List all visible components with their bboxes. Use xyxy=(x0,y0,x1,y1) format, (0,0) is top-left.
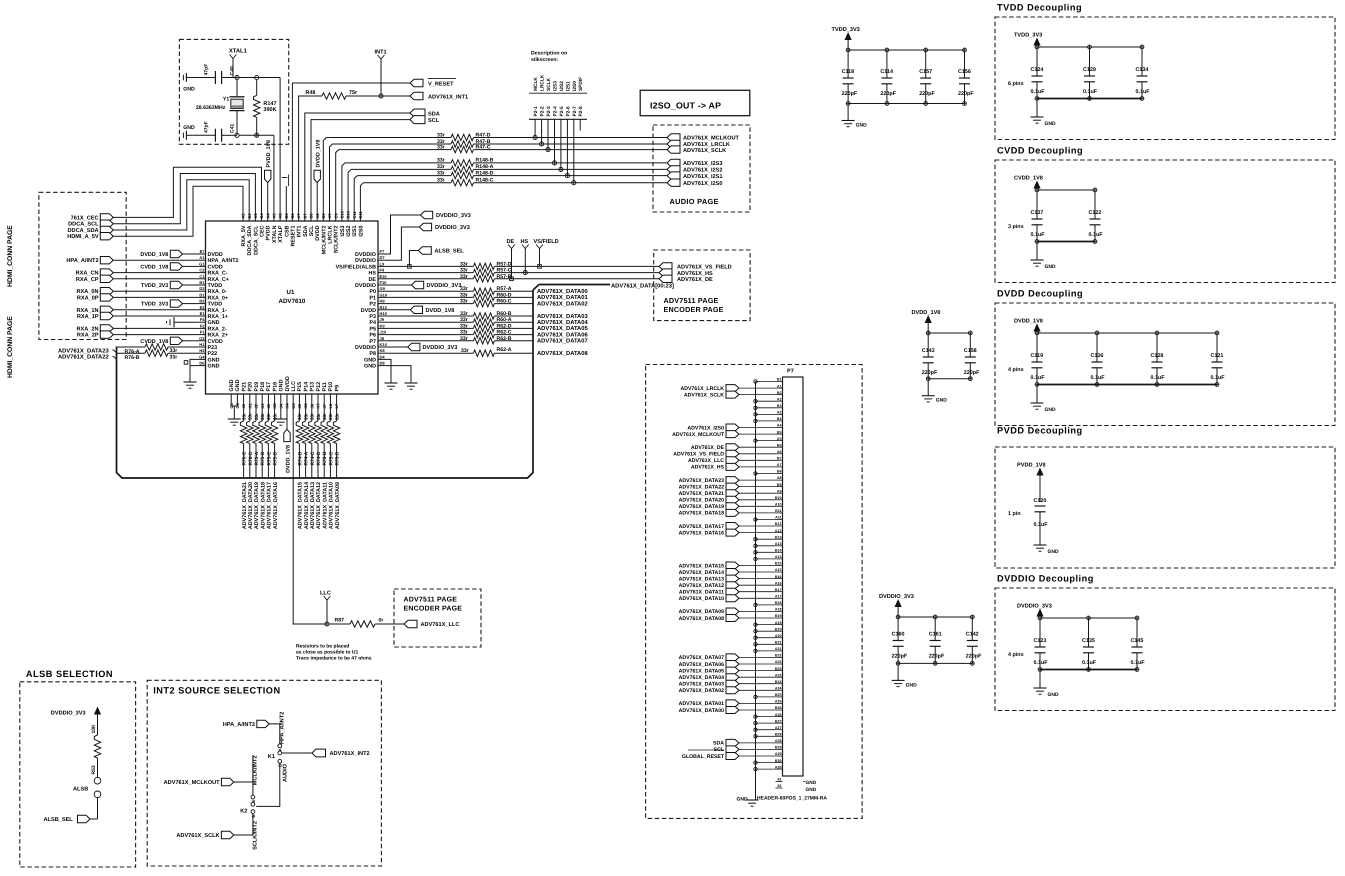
svg-text:ADV761X_SCLK: ADV761X_SCLK xyxy=(683,148,726,154)
capacitor C135 0.1uF xyxy=(1087,616,1091,620)
signal tag ADV761X_DE xyxy=(659,275,672,282)
svg-text:A29: A29 xyxy=(775,752,782,756)
svg-text:XTALN: XTALN xyxy=(272,225,278,243)
svg-text:Y1: Y1 xyxy=(223,96,229,102)
svg-text:A17: A17 xyxy=(775,595,782,599)
svg-text:B29: B29 xyxy=(775,746,782,750)
signal tag ADV761X_DATA03 (P7) xyxy=(726,680,739,687)
svg-text:ADV761X_INT1: ADV761X_INT1 xyxy=(428,94,468,100)
svg-text:DVDDIO: DVDDIO xyxy=(355,345,376,351)
wire SCL column and tag xyxy=(311,120,410,211)
svg-text:GND: GND xyxy=(806,787,817,793)
svg-text:A1: A1 xyxy=(199,255,205,260)
svg-text:ADV761X_DE: ADV761X_DE xyxy=(691,445,725,451)
resistor R62-D / net ADV761X_DATA05 xyxy=(387,327,473,329)
svg-text:DVDDIO: DVDDIO xyxy=(355,252,376,258)
resistor R75-C 33r (column P17) xyxy=(267,401,269,422)
svg-text:ADV761X_DATA15: ADV761X_DATA15 xyxy=(679,563,724,569)
svg-text:ADV761X_DATA20: ADV761X_DATA20 xyxy=(679,498,724,504)
svg-text:ADV761X_DATA14: ADV761X_DATA14 xyxy=(304,482,310,529)
svg-text:ADV761X_DATA07: ADV761X_DATA07 xyxy=(679,655,724,661)
rail DVDD_1V8 xyxy=(928,332,970,334)
tie mark on CSB column xyxy=(285,186,287,211)
svg-text:I2S3: I2S3 xyxy=(553,81,559,91)
svg-text:ADV761X_DATA02: ADV761X_DATA02 xyxy=(537,300,588,307)
svg-text:RXA_1-: RXA_1- xyxy=(208,308,227,314)
svg-text:C10: C10 xyxy=(340,210,345,218)
svg-text:ADV761X_HS: ADV761X_HS xyxy=(677,271,713,277)
svg-text:TVDD: TVDD xyxy=(208,283,223,289)
svg-text:B23: B23 xyxy=(775,667,782,671)
svg-text:MCLK: MCLK xyxy=(533,77,539,91)
svg-text:SDA: SDA xyxy=(713,741,724,747)
audio signal wires from U1 top pins (MCLK..I2S0) with 33r series resistors xyxy=(323,138,326,212)
wire top row to R147 and XTALP exit xyxy=(239,77,280,79)
svg-text:I2SO_OUT -> AP: I2SO_OUT -> AP xyxy=(650,101,721,111)
svg-text:RXA_0P: RXA_0P xyxy=(77,295,99,301)
svg-text:A9: A9 xyxy=(777,489,782,493)
svg-text:LLC: LLC xyxy=(320,591,331,597)
svg-text:220pF: 220pF xyxy=(919,91,935,97)
svg-text:RESET1: RESET1 xyxy=(290,226,296,247)
signal tag ADV761X_DATA21 (P7) xyxy=(726,490,739,497)
svg-text:C136: C136 xyxy=(1091,353,1104,359)
svg-text:HPA_A/INT2: HPA_A/INT2 xyxy=(208,258,239,264)
svg-text:33r: 33r xyxy=(437,132,445,138)
svg-text:D2: D2 xyxy=(199,286,205,291)
svg-text:47pF: 47pF xyxy=(204,121,210,133)
svg-text:ADV761X_LLC: ADV761X_LLC xyxy=(688,458,724,464)
svg-text:ADV761X_INT2: ADV761X_INT2 xyxy=(330,751,370,757)
svg-text:K8: K8 xyxy=(380,348,386,353)
svg-text:P2-1: P2-1 xyxy=(533,106,539,116)
svg-text:33r: 33r xyxy=(316,413,321,420)
svg-text:I2S2: I2S2 xyxy=(559,81,565,91)
svg-text:C160: C160 xyxy=(892,632,905,638)
svg-text:ADV7610: ADV7610 xyxy=(279,298,306,305)
svg-text:B2: B2 xyxy=(777,391,782,395)
svg-text:GND: GND xyxy=(279,379,285,391)
svg-text:ADV761X_MCLKOUT: ADV761X_MCLKOUT xyxy=(683,136,740,142)
svg-text:DVDD: DVDD xyxy=(315,225,321,240)
svg-text:C114: C114 xyxy=(880,69,893,75)
svg-text:33r: 33r xyxy=(334,413,339,420)
svg-text:B20: B20 xyxy=(775,627,782,631)
capacitor C137 0.1uF xyxy=(1035,188,1039,192)
svg-text:GND: GND xyxy=(1048,692,1060,698)
svg-text:B6: B6 xyxy=(290,213,295,219)
svg-text:C11: C11 xyxy=(352,211,357,219)
wire XTALP column xyxy=(279,78,281,212)
power flag DVDD_1V8 below DVDD bottom pin xyxy=(286,401,288,430)
svg-text:ADV761X_DATA12: ADV761X_DATA12 xyxy=(316,482,322,529)
signal tag ADV761X_INT1 xyxy=(410,92,423,99)
jumper ALSB pin 1 xyxy=(94,777,101,784)
INT2 SOURCE SELECTION dashed enclosure xyxy=(147,680,381,866)
svg-text:33r: 33r xyxy=(248,413,253,420)
signal tag ADV761X_SCLK (INT2 box) xyxy=(221,831,233,838)
signal tag ADV761X_HS xyxy=(659,269,672,276)
resistor R60-A / net ADV761X_DATA04 xyxy=(387,321,473,323)
svg-text:ADV761X_DATA02: ADV761X_DATA02 xyxy=(679,688,724,694)
capacitor C124 0.1uF xyxy=(1035,45,1039,49)
power flag DVDDIO_3V3 (pin F10) xyxy=(387,284,412,286)
svg-text:J8: J8 xyxy=(380,336,385,341)
svg-text:A11: A11 xyxy=(775,516,781,520)
svg-text:R48: R48 xyxy=(306,90,316,96)
svg-text:0.1uF: 0.1uF xyxy=(1034,522,1049,528)
svg-text:A19: A19 xyxy=(775,621,782,625)
signal tag ADV761X_DATA22 (P7) xyxy=(726,483,739,490)
svg-text:B19: B19 xyxy=(775,614,782,618)
signal tag ADV761X_MCLKOUT (INT2 box) xyxy=(221,778,233,785)
svg-text:L9: L9 xyxy=(380,261,385,266)
U1 left pins (stubs, numbers, names) xyxy=(197,253,206,255)
DVDD Decoupling dashed enclosure xyxy=(995,303,1335,426)
svg-text:PVDD Decoupling: PVDD Decoupling xyxy=(997,426,1083,436)
svg-text:ADV761X_DATA03: ADV761X_DATA03 xyxy=(679,682,724,688)
svg-text:A10: A10 xyxy=(775,503,782,507)
signal tag SDA (P7) xyxy=(726,739,739,746)
svg-text:RXA_2P: RXA_2P xyxy=(77,333,99,339)
resistor R74-B 33r (column P15) xyxy=(298,401,300,422)
svg-text:33r: 33r xyxy=(437,164,445,170)
signal tag HPA_A/INT2 (INT2 box) xyxy=(257,720,269,727)
svg-text:A2: A2 xyxy=(777,397,782,401)
svg-text:C128: C128 xyxy=(1151,353,1164,359)
svg-text:TVDD_3V3: TVDD_3V3 xyxy=(141,283,168,289)
ground (DVDD Decoupling) xyxy=(1036,385,1038,404)
signal tag ADV761X_VS_FIELD (P7) xyxy=(726,450,739,457)
svg-text:DVDDIO: DVDDIO xyxy=(355,258,376,264)
TVDD Decoupling dashed enclosure xyxy=(995,17,1335,140)
svg-text:C157: C157 xyxy=(919,69,932,75)
svg-text:0.1uF: 0.1uF xyxy=(1034,660,1049,666)
svg-text:B13: B13 xyxy=(775,535,782,539)
wire AUDIO from K1 to K2 xyxy=(256,763,280,806)
svg-text:ADV761X_DATA21: ADV761X_DATA21 xyxy=(679,491,724,497)
svg-text:P8: P8 xyxy=(369,351,376,357)
svg-text:B9: B9 xyxy=(321,213,326,219)
svg-text:B26: B26 xyxy=(775,706,782,710)
ground (C40) xyxy=(186,77,192,79)
svg-text:62: 62 xyxy=(778,784,782,788)
svg-text:I2S2: I2S2 xyxy=(346,226,352,237)
svg-text:B18: B18 xyxy=(775,601,782,605)
svg-text:33r: 33r xyxy=(310,413,315,420)
svg-text:E1: E1 xyxy=(200,311,206,316)
svg-text:B25: B25 xyxy=(775,693,782,697)
svg-text:B7: B7 xyxy=(777,457,782,461)
op-amp/IC U1 ADV7610 body xyxy=(206,221,379,394)
svg-text:A18: A18 xyxy=(775,608,782,612)
signal tag ADV761X_MCLKOUT (P7) xyxy=(726,431,739,438)
svg-text:33r: 33r xyxy=(437,170,445,176)
svg-text:ADV761X_DATA13: ADV761X_DATA13 xyxy=(310,482,316,529)
svg-text:P2-2: P2-2 xyxy=(540,106,546,116)
svg-text:B28: B28 xyxy=(775,733,782,737)
svg-text:0.1uF: 0.1uF xyxy=(1031,232,1046,238)
svg-text:220pF: 220pF xyxy=(842,91,858,97)
svg-text:DVDDIO_3V3: DVDDIO_3V3 xyxy=(427,283,462,289)
svg-text:P11: P11 xyxy=(322,382,328,391)
svg-text:GND: GND xyxy=(364,357,376,363)
svg-text:C145: C145 xyxy=(1131,638,1144,644)
svg-text:K9: K9 xyxy=(380,323,386,328)
wire RESET1 column to V_RESET xyxy=(292,83,410,211)
svg-text:H1: H1 xyxy=(199,342,205,347)
svg-text:B5: B5 xyxy=(777,430,782,434)
svg-text:TVDD_3V3: TVDD_3V3 xyxy=(832,27,860,33)
svg-text:HDMI_A_5V: HDMI_A_5V xyxy=(67,234,99,240)
svg-text:VS/FIELD/ALSB: VS/FIELD/ALSB xyxy=(336,264,377,270)
wire: bus left vertical to R76-A xyxy=(117,346,146,348)
signal tag ADV761X_DATA10 (P7) xyxy=(726,595,739,602)
svg-text:ADV761X_HS: ADV761X_HS xyxy=(691,465,725,471)
svg-text:R75-B: R75-B xyxy=(260,451,266,465)
svg-text:A23: A23 xyxy=(775,673,782,677)
svg-text:A21: A21 xyxy=(775,647,782,651)
wire SDA column and tag xyxy=(305,113,410,211)
svg-text:33r: 33r xyxy=(460,299,468,305)
jumper K2 (3-pin) xyxy=(251,795,255,799)
svg-text:CVDD Decoupling: CVDD Decoupling xyxy=(997,146,1083,156)
junctions lower row xyxy=(235,133,239,137)
svg-text:P15: P15 xyxy=(297,382,303,392)
signal tag ADV761X_DATA07 (P7) xyxy=(726,654,739,661)
svg-text:G2: G2 xyxy=(199,336,205,341)
svg-text:C121: C121 xyxy=(1211,353,1224,359)
svg-text:ALSB SELECTION: ALSB SELECTION xyxy=(26,669,113,679)
svg-text:K1: K1 xyxy=(268,754,275,760)
svg-text:ADV761X_DATA04: ADV761X_DATA04 xyxy=(679,675,724,681)
svg-text:LLC: LLC xyxy=(291,381,297,392)
svg-text:K10: K10 xyxy=(380,342,388,347)
svg-text:0.1uF: 0.1uF xyxy=(1136,89,1151,95)
svg-text:A9: A9 xyxy=(327,213,332,219)
resistor R76-D 33r (column P20) xyxy=(249,401,251,422)
svg-text:PVDD_1V8: PVDD_1V8 xyxy=(266,140,272,168)
wire XTALN column xyxy=(273,135,275,211)
svg-text:B10: B10 xyxy=(775,496,782,500)
svg-text:33r: 33r xyxy=(328,413,333,420)
rail DVDDIO_3V3 xyxy=(898,616,972,618)
svg-text:ADV761X_DATA09: ADV761X_DATA09 xyxy=(679,609,724,615)
svg-text:R87: R87 xyxy=(335,618,345,624)
svg-text:A13: A13 xyxy=(775,542,782,546)
svg-text:DVDD Decoupling: DVDD Decoupling xyxy=(997,289,1083,299)
svg-text:B4: B4 xyxy=(259,213,264,219)
svg-text:ADV761X_DATA01: ADV761X_DATA01 xyxy=(537,294,588,301)
capacitor C143 220pF xyxy=(926,331,930,335)
svg-text:H9: H9 xyxy=(380,299,386,304)
svg-text:P21: P21 xyxy=(241,382,247,392)
svg-text:ADV7511 PAGE: ADV7511 PAGE xyxy=(404,597,458,604)
svg-text:A6: A6 xyxy=(278,213,283,219)
svg-text:28.6363MHz: 28.6363MHz xyxy=(196,105,226,111)
svg-text:P9: P9 xyxy=(334,385,340,392)
svg-text:A3: A3 xyxy=(253,213,258,219)
svg-text:ADV761X_DATA14: ADV761X_DATA14 xyxy=(679,570,724,576)
svg-text:B1: B1 xyxy=(777,378,782,382)
svg-text:TVDD_3V3: TVDD_3V3 xyxy=(1014,33,1042,39)
svg-text:I2S1: I2S1 xyxy=(352,226,358,237)
svg-text:A: A xyxy=(251,800,256,803)
svg-text:R75-C: R75-C xyxy=(266,451,272,465)
svg-text:P2: P2 xyxy=(369,302,376,308)
U1 right pins (stubs, numbers, names) xyxy=(378,253,387,255)
svg-text:C119: C119 xyxy=(1031,353,1044,359)
svg-text:B8: B8 xyxy=(777,470,782,474)
svg-text:B9: B9 xyxy=(777,483,782,487)
svg-text:RXA_0-: RXA_0- xyxy=(208,289,227,295)
signal tag ADV761X_DATA01 (P7) xyxy=(726,700,739,707)
svg-text:C122: C122 xyxy=(1089,210,1102,216)
svg-text:ADV761X_DATA08: ADV761X_DATA08 xyxy=(537,350,588,357)
svg-text:75r: 75r xyxy=(349,90,358,96)
svg-text:LRCLK: LRCLK xyxy=(328,225,334,243)
svg-text:B1: B1 xyxy=(199,280,205,285)
svg-text:4 pins: 4 pins xyxy=(1008,367,1024,373)
svg-text:ADV761X_DE: ADV761X_DE xyxy=(677,277,713,283)
DVDDIO Decoupling dashed enclosure xyxy=(995,588,1335,711)
svg-text:DVDD_1V8: DVDD_1V8 xyxy=(912,310,941,316)
signal tag ADV761X_DATA23 (P7) xyxy=(726,477,739,484)
resistor R76-C 33r (column P21) xyxy=(243,401,245,422)
power flag DVDDIO_3V3 (pin F7) xyxy=(387,215,421,254)
svg-text:33r: 33r xyxy=(460,292,468,298)
svg-text:GND: GND xyxy=(1045,121,1057,127)
svg-text:33r: 33r xyxy=(303,413,308,420)
capacitor C41 47pF xyxy=(193,134,216,136)
svg-text:P22: P22 xyxy=(208,351,218,357)
svg-text:ADV761X_DATA05: ADV761X_DATA05 xyxy=(537,325,588,332)
svg-text:33r: 33r xyxy=(170,355,178,361)
wire MCLK/INT2 to K2 xyxy=(234,781,253,783)
svg-text:SDA: SDA xyxy=(428,112,440,118)
svg-text:ADV761X_DATA19: ADV761X_DATA19 xyxy=(679,504,724,510)
svg-text:E7: E7 xyxy=(200,249,206,254)
svg-text:ADV761X_DATA01: ADV761X_DATA01 xyxy=(679,701,724,707)
svg-text:ADV761X_SCLK: ADV761X_SCLK xyxy=(176,833,219,839)
power flag CVDD_1V8 (pin G2) xyxy=(170,337,182,344)
resistor R76-B 33r xyxy=(145,350,168,356)
capacitor C119 0.1uF xyxy=(1035,331,1039,335)
capacitor C142 220pF xyxy=(970,615,974,619)
svg-text:0.1uF: 0.1uF xyxy=(1083,89,1098,95)
audio page signal tags xyxy=(667,134,680,141)
svg-text:P2-7: P2-7 xyxy=(572,106,578,116)
svg-text:33r: 33r xyxy=(241,413,246,420)
svg-text:R76-A: R76-A xyxy=(125,349,140,355)
svg-text:33r: 33r xyxy=(460,317,468,323)
svg-text:ADV761X_VS_FIELD: ADV761X_VS_FIELD xyxy=(673,452,724,458)
svg-text:A30: A30 xyxy=(775,765,782,769)
header P7 dashed enclosure xyxy=(646,365,863,819)
svg-text:V_RESET: V_RESET xyxy=(428,81,454,87)
svg-text:220pF: 220pF xyxy=(966,654,982,660)
svg-text:D4: D4 xyxy=(380,354,386,359)
svg-text:A24: A24 xyxy=(775,687,782,691)
signal tag ADV761X_DATA13 (P7) xyxy=(726,575,739,582)
svg-text:B14: B14 xyxy=(775,549,782,553)
svg-text:33r: 33r xyxy=(260,413,265,420)
svg-text:HEADER-60POS_1_27MM-RA: HEADER-60POS_1_27MM-RA xyxy=(757,796,827,802)
svg-text:ADV761X_DATA10: ADV761X_DATA10 xyxy=(679,596,724,602)
svg-text:ADV761X_DATA08: ADV761X_DATA08 xyxy=(679,616,724,622)
ground for bottom GND pins (C4,G5) xyxy=(230,401,232,407)
svg-text:P18: P18 xyxy=(260,382,266,392)
svg-text:P7: P7 xyxy=(787,369,794,375)
resistor R74-D 33r (column P12) xyxy=(317,401,319,422)
svg-text:HPA_A/INT2: HPA_A/INT2 xyxy=(278,712,285,744)
svg-text:R53: R53 xyxy=(91,765,97,774)
svg-text:ADV761X_DATA10: ADV761X_DATA10 xyxy=(329,482,335,529)
svg-text:GND: GND xyxy=(806,780,817,786)
signal tag ADV761X_SCLK (P7) xyxy=(726,391,739,398)
svg-text:E2: E2 xyxy=(200,305,206,310)
svg-text:SCL: SCL xyxy=(428,118,440,124)
svg-text:C1: C1 xyxy=(199,274,205,279)
ground for bottom GND pin (J4) xyxy=(280,401,282,420)
svg-text:R76-C: R76-C xyxy=(242,451,248,465)
svg-text:P23: P23 xyxy=(208,345,218,351)
svg-text:DVDD_1V8: DVDD_1V8 xyxy=(426,308,455,314)
ground symbols for U1 right GND pins xyxy=(387,359,391,383)
svg-text:ENCODER PAGE: ENCODER PAGE xyxy=(404,606,463,613)
svg-text:H2: H2 xyxy=(199,348,205,353)
power flag DVDD_1V8 (pin B10) xyxy=(387,309,410,311)
resistor R62-C / net ADV761X_DATA06 xyxy=(387,334,473,336)
svg-text:0.1uF: 0.1uF xyxy=(1031,375,1046,381)
header shield pins 61/62 xyxy=(776,781,783,783)
ADV7511 PAGE / ENCODER PAGE dashed enclosure (lower) xyxy=(394,589,481,647)
svg-text:P7: P7 xyxy=(369,339,376,345)
svg-text:C120: C120 xyxy=(1034,498,1047,504)
svg-text:SCLK/INT2: SCLK/INT2 xyxy=(252,821,259,850)
svg-text:ADV761X_DATA17: ADV761X_DATA17 xyxy=(679,524,724,530)
svg-text:B15: B15 xyxy=(775,562,782,566)
svg-text:D10: D10 xyxy=(346,210,351,218)
svg-text:ADV761X_DATA16: ADV761X_DATA16 xyxy=(273,482,279,529)
power flag TVDD_3V3 (pin B2) xyxy=(170,300,182,307)
svg-text:GND: GND xyxy=(936,398,948,404)
resistor R75-A 33r (column P19) xyxy=(255,401,257,422)
svg-text:GND: GND xyxy=(1045,264,1057,270)
capacitor C114 220pF xyxy=(885,48,889,52)
svg-text:DDCA_SDA: DDCA_SDA xyxy=(68,228,99,234)
svg-text:ADV761X_DATA13: ADV761X_DATA13 xyxy=(679,576,724,582)
svg-text:RXA_1N: RXA_1N xyxy=(77,308,99,314)
svg-text:A8: A8 xyxy=(777,476,782,480)
signal tag ADV761X_INT2 xyxy=(282,752,312,754)
ground (DVDD_1V8 cluster) xyxy=(927,379,929,396)
svg-text:A4: A4 xyxy=(777,424,782,428)
svg-text:33r: 33r xyxy=(460,274,468,280)
svg-text:A15: A15 xyxy=(775,568,782,572)
svg-text:A3: A3 xyxy=(777,411,782,415)
svg-text:33r: 33r xyxy=(437,158,445,164)
svg-text:B10: B10 xyxy=(380,305,388,310)
resistor R48 75r on INT1 line xyxy=(299,96,322,211)
svg-text:1 pin: 1 pin xyxy=(1008,511,1021,517)
AUDIO PAGE dashed enclosure xyxy=(653,125,750,212)
svg-text:ADV761X_DATA22: ADV761X_DATA22 xyxy=(58,354,109,361)
svg-text:RXA_2N: RXA_2N xyxy=(77,326,99,332)
resistor R147 390K xyxy=(256,80,258,96)
svg-text:A28: A28 xyxy=(775,739,782,743)
svg-text:PVDD_1V8: PVDD_1V8 xyxy=(1017,463,1046,469)
